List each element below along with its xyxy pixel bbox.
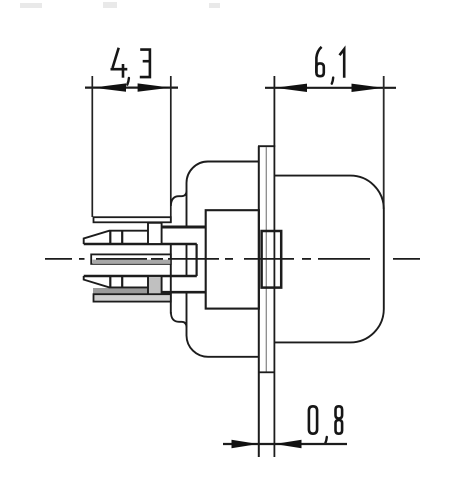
top lug block xyxy=(148,223,162,244)
bottom lug rivet line 2 xyxy=(121,276,123,287)
dimension 4,3 line xyxy=(85,86,178,88)
dimension 0,8 line xyxy=(223,443,347,445)
bottom solder lug bar xyxy=(94,294,171,301)
top lug rivet line 2 xyxy=(121,231,123,244)
dimension 6,1 left arrow xyxy=(275,84,307,92)
dimension 0,8 text xyxy=(309,406,342,443)
flange plate left edge xyxy=(258,146,260,457)
top solder lug bar xyxy=(94,217,171,222)
dimension 4,3 right arrow xyxy=(138,83,171,91)
collar bottom shoulder xyxy=(171,312,187,328)
bottom lug rivet line 1 xyxy=(109,276,111,287)
center pin body xyxy=(91,254,171,264)
dimension 6,1 text xyxy=(316,47,344,84)
insulator box around center pin xyxy=(84,244,197,276)
inner rectangle block xyxy=(206,210,259,308)
dimension 6,1 right extension line / can right edge upper xyxy=(383,76,385,209)
ghost text remnants top edge xyxy=(20,2,220,8)
top lug slanted fork xyxy=(84,231,148,244)
centerline dash-dot xyxy=(45,258,420,260)
top lug rivet line 1 xyxy=(109,231,111,244)
dimension 6,1 line xyxy=(265,87,396,89)
center pin lower shading xyxy=(92,260,170,264)
center bushing through plate xyxy=(262,231,282,288)
collar top shoulder xyxy=(171,191,187,207)
dimension 6,1 right arrow xyxy=(352,84,384,92)
dimension 4,3 left arrow xyxy=(93,83,126,91)
dimension 0,8 right arrow xyxy=(275,440,302,449)
flange plate middle line xyxy=(265,147,267,372)
thick band lower xyxy=(162,291,206,294)
rear housing body outline xyxy=(187,162,259,227)
dimension 4,3 text xyxy=(111,48,150,85)
dimension 0,8 left arrow xyxy=(232,440,259,449)
dimension 4,3 left extension line xyxy=(91,76,93,217)
front can body outline xyxy=(275,176,384,343)
dimension 4,3 right extension line / collar front face xyxy=(170,76,172,223)
thick band upper xyxy=(162,226,206,229)
bottom lug slanted fork xyxy=(84,276,148,287)
flange plate step tick xyxy=(259,371,274,373)
flange plate top cap xyxy=(258,145,275,147)
flange plate right edge / 6,1 left extension xyxy=(273,76,275,457)
bottom lug gray shading xyxy=(93,288,162,294)
bottom lug block xyxy=(148,276,162,296)
